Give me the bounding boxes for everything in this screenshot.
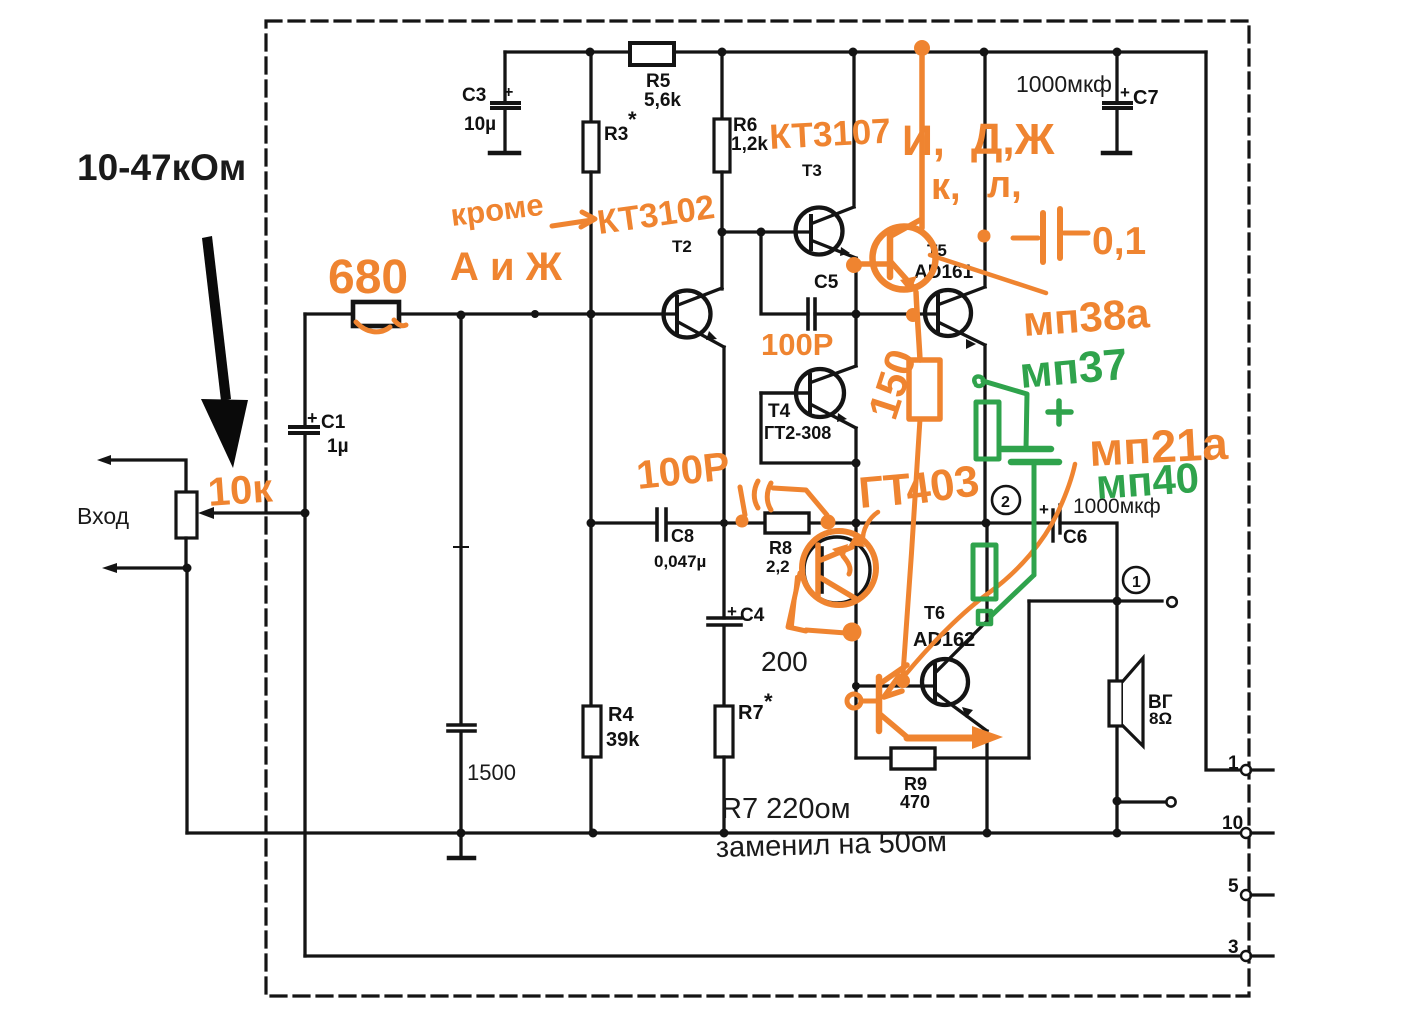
svg-text:100Р: 100Р	[761, 327, 833, 362]
svg-text:С5: С5	[814, 272, 839, 293]
svg-text:R3: R3	[604, 124, 628, 145]
capacitor C1	[290, 314, 318, 956]
label 1000mkf top	[1016, 71, 1112, 97]
capacitor 1500	[448, 314, 475, 858]
orange note MP21a	[1088, 417, 1230, 476]
svg-text:1000мкф: 1000мкф	[1016, 71, 1112, 97]
green note MP40	[1094, 454, 1200, 508]
big black arrow	[201, 236, 248, 468]
wire feedback row y523	[591, 523, 1117, 601]
resistor R7	[715, 706, 733, 833]
capacitor C8	[657, 509, 666, 540]
green resistor sketch lower	[973, 545, 996, 599]
label C8	[654, 526, 706, 571]
capacitor C3	[490, 52, 519, 153]
potentiometer wiper arrow	[198, 507, 305, 519]
svg-text:680: 680	[328, 251, 408, 304]
orange capacitor 0,1 note	[978, 209, 1147, 263]
label R6	[731, 115, 768, 155]
orange note MP38a	[930, 255, 1151, 345]
svg-text:C6: C6	[1063, 527, 1087, 548]
dashed enclosure border	[266, 21, 1249, 996]
svg-text:R4: R4	[608, 704, 634, 726]
label R4	[606, 704, 640, 751]
svg-text:+: +	[727, 602, 737, 621]
svg-text:Вход: Вход	[77, 503, 130, 529]
svg-text:0,047µ: 0,047µ	[654, 552, 706, 571]
resistor 680 input wire	[305, 302, 677, 326]
wire output column	[1029, 601, 1162, 758]
svg-text:мп37: мп37	[1018, 340, 1130, 398]
svg-text:0,1: 0,1	[1092, 220, 1146, 263]
label C6	[1039, 500, 1087, 548]
label T4	[764, 401, 831, 443]
svg-text:*: *	[628, 107, 637, 132]
green capacitor sketch	[978, 401, 1071, 624]
terminal 10	[1241, 828, 1273, 838]
svg-text:470: 470	[900, 792, 930, 812]
svg-text:мп38а: мп38а	[1021, 289, 1151, 345]
label zamenil na 50om	[715, 826, 947, 864]
wire bottom return y956	[305, 954, 1241, 957]
svg-text:5,6k: 5,6k	[644, 90, 681, 111]
orange transistor T6 overdraw	[847, 665, 1003, 749]
svg-text:3: 3	[1228, 937, 1239, 958]
capacitor C4	[708, 347, 741, 706]
label 10-47kOm	[77, 147, 246, 188]
svg-text:1: 1	[1228, 753, 1239, 774]
orange pointer curve to MP21a	[906, 464, 1075, 674]
svg-text:C7: C7	[1133, 87, 1159, 109]
svg-text:C3: C3	[462, 85, 486, 106]
svg-text:39k: 39k	[606, 729, 640, 751]
orange note krome	[449, 187, 595, 233]
transistor T6	[856, 523, 987, 833]
wire driver column x856	[854, 314, 857, 758]
resistor R3	[583, 52, 599, 314]
svg-text:C4: C4	[740, 605, 765, 626]
svg-text:C8: C8	[671, 526, 694, 546]
green resistor sketch upper	[974, 376, 1027, 459]
label 1000mkf mid	[1073, 495, 1161, 518]
orange note 100p lower	[634, 444, 732, 498]
orange capacitor doodle over R8	[736, 481, 836, 530]
svg-text:10µ: 10µ	[464, 114, 496, 135]
svg-text:2: 2	[1001, 494, 1010, 511]
resistor R9	[856, 748, 1029, 769]
terminal circle out1	[1167, 597, 1177, 607]
wire top supply rail	[505, 50, 1206, 53]
svg-text:R9: R9	[904, 774, 927, 794]
svg-text:8Ω: 8Ω	[1149, 709, 1172, 728]
svg-text:+: +	[307, 408, 318, 428]
label C5	[814, 272, 839, 293]
svg-text:+: +	[1039, 500, 1049, 519]
label terminal 5	[1228, 876, 1239, 897]
svg-text:C1: C1	[321, 412, 346, 433]
transistor T5	[856, 52, 985, 523]
label T2	[672, 237, 692, 256]
input jack arrow upper	[97, 455, 186, 492]
wire right supply rail	[1206, 52, 1241, 770]
orange transistor GT403 circle sketch	[788, 531, 876, 642]
svg-text:R8: R8	[769, 538, 792, 558]
svg-text:1: 1	[1132, 574, 1141, 591]
svg-text:403: 403	[903, 456, 983, 515]
label terminal 3	[1228, 937, 1239, 958]
terminal 1	[1241, 765, 1273, 775]
label terminal 1	[1228, 753, 1239, 774]
svg-text:+: +	[1120, 83, 1130, 102]
capacitor C5	[808, 299, 815, 329]
resistor R5	[630, 43, 674, 65]
label T6 AD162	[913, 603, 975, 651]
orange note KT3107	[768, 112, 891, 157]
svg-text:Д,Ж: Д,Ж	[971, 115, 1055, 164]
svg-text:Т4: Т4	[768, 401, 791, 422]
label R9	[900, 774, 930, 812]
label node2 digit	[1001, 494, 1010, 511]
svg-text:R7 220ом: R7 220ом	[721, 793, 851, 825]
label R7	[738, 689, 773, 724]
wire speaker lower tap	[1117, 797, 1176, 806]
orange transistor T5 overdraw	[846, 220, 936, 360]
label C3 value	[462, 84, 513, 135]
label R5 value	[644, 71, 681, 111]
svg-text:А и Ж: А и Ж	[450, 245, 563, 289]
label C4	[727, 602, 765, 626]
potentiometer 10k	[176, 492, 197, 538]
label C7	[1120, 83, 1159, 109]
svg-text:R6: R6	[733, 115, 757, 136]
label 200	[761, 646, 808, 677]
terminal 3	[1241, 951, 1273, 961]
label R8	[766, 538, 792, 576]
label C1	[307, 408, 349, 457]
orange note GT403	[849, 456, 982, 547]
svg-text:заменил на 50ом: заменил на 50ом	[715, 826, 947, 864]
svg-text:Т3: Т3	[802, 161, 822, 180]
svg-text:Т6: Т6	[924, 603, 945, 623]
svg-text:ГТ2-308: ГТ2-308	[764, 423, 831, 443]
resistor R6	[714, 52, 730, 289]
input jack arrow lower	[102, 538, 187, 833]
svg-text:+: +	[504, 84, 513, 101]
label VG speaker	[1148, 692, 1173, 728]
capacitor C7	[1103, 52, 1131, 153]
terminal 5	[1241, 890, 1273, 900]
orange note 10k	[206, 466, 274, 514]
wire ground rail y833	[187, 831, 1241, 834]
orange note 680	[328, 251, 408, 332]
orange note 100p upper	[761, 327, 833, 362]
resistor R8	[765, 513, 809, 533]
label T3	[802, 161, 822, 180]
svg-text:1µ: 1µ	[327, 436, 349, 457]
svg-text:к,: к,	[931, 166, 961, 208]
wire T2 collector to T3 base	[722, 230, 809, 233]
svg-text:5: 5	[1228, 876, 1239, 897]
node 1 circled	[1123, 567, 1149, 593]
transistor T4	[761, 366, 856, 463]
label T5 AD161	[914, 241, 974, 283]
transistor T2	[664, 288, 725, 347]
svg-text:2,2: 2,2	[766, 557, 790, 576]
resistor R4	[583, 314, 601, 833]
svg-text:мп40: мп40	[1094, 454, 1200, 508]
label 1500	[467, 760, 516, 785]
orange note letters I D Zh K L	[902, 115, 1055, 208]
svg-text:10-47кОм: 10-47кОм	[77, 147, 246, 188]
wire C5 branch	[761, 232, 856, 314]
svg-text:1,2k: 1,2k	[731, 134, 768, 155]
node 2 circled	[992, 486, 1020, 514]
label Vhod	[77, 503, 130, 529]
transistor T3	[796, 52, 857, 314]
svg-text:10: 10	[1222, 813, 1243, 834]
orange note KT3102	[595, 188, 717, 242]
svg-text:R5: R5	[646, 71, 671, 92]
label R7 220om	[721, 793, 851, 825]
svg-text:л,: л,	[987, 164, 1022, 206]
orange wire collector overdraw	[914, 40, 930, 228]
speaker VG	[1109, 601, 1143, 833]
orange note A i Zh	[450, 245, 563, 289]
orange resistor 150	[859, 344, 940, 674]
label R3	[604, 107, 637, 145]
svg-text:200: 200	[761, 646, 808, 677]
svg-text:Т2: Т2	[672, 237, 692, 256]
green note MP37	[1018, 340, 1130, 398]
svg-text:R7: R7	[738, 702, 764, 724]
svg-text:10к: 10к	[206, 466, 274, 514]
label terminal 10	[1222, 813, 1243, 834]
svg-text:1500: 1500	[467, 760, 516, 785]
capacitor C6	[1053, 505, 1060, 541]
svg-text:*: *	[764, 689, 773, 714]
hidden transistor under orange	[804, 537, 870, 603]
svg-text:КТ3107: КТ3107	[768, 112, 891, 157]
label node1 digit	[1132, 574, 1141, 591]
